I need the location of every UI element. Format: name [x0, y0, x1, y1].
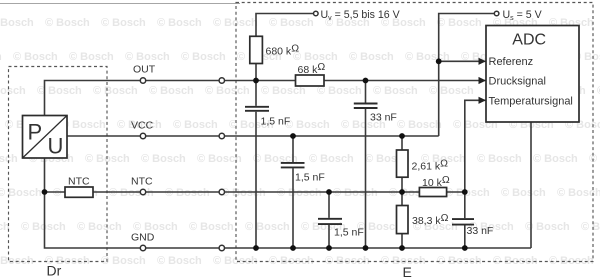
sensor cell P/U [23, 116, 68, 159]
svg-text:GND: GND [131, 232, 155, 244]
resistor 68k [296, 61, 326, 86]
svg-text:© Bosch: © Bosch [181, 51, 226, 63]
svg-text:© Bosch: © Bosch [101, 17, 146, 29]
svg-text:© Bosch: © Bosch [245, 221, 290, 233]
svg-text:© Bosch: © Bosch [293, 51, 338, 63]
svg-text:© Bosch: © Bosch [21, 221, 66, 233]
svg-text:© Bosch: © Bosch [445, 187, 490, 199]
capacitor C4 1.5nF [318, 219, 364, 239]
wire rail capacitor C3 [292, 136, 294, 248]
svg-text:© Bosch: © Bosch [0, 51, 2, 63]
top rule [0, 3, 240, 5]
pin arrow Referenz [479, 58, 487, 65]
svg-text:1,5 nF: 1,5 nF [261, 115, 291, 127]
svg-text:Dr: Dr [47, 263, 62, 279]
wire rail capacitor C5 [464, 192, 466, 248]
svg-text:© Bosch: © Bosch [149, 85, 194, 97]
wire ADC ground [530, 122, 532, 248]
svg-text:© Bosch: © Bosch [141, 153, 186, 165]
wire rail capacitor C2 [365, 81, 367, 249]
svg-text:NTC: NTC [68, 176, 90, 188]
svg-text:© Bosch: © Bosch [205, 85, 250, 97]
wire OUT (y=80.5) [45, 81, 487, 116]
svg-text:© Bosch: © Bosch [69, 51, 114, 63]
capacitor C2 33nF [354, 104, 397, 124]
svg-text:Temperatursignal: Temperatursignal [489, 95, 573, 107]
svg-text:© Bosch: © Bosch [165, 187, 210, 199]
wire VCC (y=136) [67, 135, 439, 137]
svg-text:© Bosch: © Bosch [157, 255, 202, 267]
svg-text:© Bosch: © Bosch [581, 221, 600, 233]
capacitor C3 1.5nF [281, 163, 325, 184]
svg-text:Uv = 5,5 bis 16 V: Uv = 5,5 bis 16 V [321, 9, 401, 22]
svg-text:© Bosch: © Bosch [101, 255, 146, 267]
svg-text:© Bosch: © Bosch [189, 221, 234, 233]
capacitor C5 33nF [452, 219, 493, 237]
sensor box Dr (dashed) [9, 67, 108, 262]
node junction dots [42, 58, 468, 251]
svg-text:© Bosch: © Bosch [277, 187, 322, 199]
svg-text:© Bosch: © Bosch [0, 17, 34, 29]
svg-text:© Bosch: © Bosch [477, 153, 522, 165]
wire rail capacitor C4 [328, 192, 330, 248]
resistor 680k [250, 36, 299, 63]
svg-text:Drucksignal: Drucksignal [489, 75, 546, 87]
wire GND (y=248) [45, 158, 532, 248]
terminal Uv [314, 11, 319, 16]
wire supply Us / 5V rail [439, 14, 495, 137]
svg-text:© Bosch: © Bosch [501, 187, 546, 199]
svg-text:© Bosch: © Bosch [429, 85, 474, 97]
resistor 10k [419, 174, 449, 197]
svg-text:Referenz: Referenz [489, 56, 534, 68]
svg-text:© Bosch: © Bosch [437, 17, 482, 29]
svg-text:33 nF: 33 nF [467, 225, 494, 237]
svg-text:33 nF: 33 nF [370, 112, 397, 124]
svg-text:© Bosch: © Bosch [285, 119, 330, 131]
resistor 38.3k [397, 206, 449, 234]
svg-text:P: P [28, 120, 43, 145]
svg-text:1,5 nF: 1,5 nF [295, 172, 325, 184]
wire rail R2/R5 [401, 136, 403, 248]
svg-text:© Bosch: © Bosch [373, 85, 418, 97]
svg-text:© Bosch: © Bosch [173, 119, 218, 131]
svg-text:© Bosch: © Bosch [0, 85, 26, 97]
svg-text:© Bosch: © Bosch [333, 187, 378, 199]
pin arrow Drucksignal [479, 77, 487, 84]
svg-text:© Bosch: © Bosch [197, 153, 242, 165]
terminal Us [494, 11, 499, 16]
resistor NTC [65, 176, 93, 198]
svg-text:© Bosch: © Bosch [533, 153, 578, 165]
pin arrow Temperatursignal [479, 97, 487, 104]
ECU box E (dashed) [236, 3, 593, 262]
svg-text:© Bosch: © Bosch [93, 85, 138, 97]
resistor 2.61k [397, 150, 449, 177]
svg-text:© Bosch: © Bosch [397, 119, 442, 131]
svg-text:OUT: OUT [133, 64, 156, 76]
svg-text:© Bosch: © Bosch [589, 153, 600, 165]
svg-text:© Bosch: © Bosch [109, 187, 154, 199]
svg-text:© Bosch: © Bosch [221, 187, 266, 199]
svg-text:© Bosch: © Bosch [269, 17, 314, 29]
svg-text:© Bosch: © Bosch [45, 17, 90, 29]
svg-text:© Bosch: © Bosch [77, 221, 122, 233]
svg-text:© Bosch: © Bosch [13, 51, 58, 63]
svg-text:1,5 nF: 1,5 nF [334, 226, 364, 238]
svg-text:© Bosch: © Bosch [0, 187, 42, 199]
svg-text:U: U [48, 134, 64, 159]
wire Referenz [439, 60, 486, 62]
wire NTC (y=192) [45, 191, 465, 193]
wire Temperatursignal [465, 100, 486, 192]
connector terminals [140, 78, 224, 251]
wire supply Uv [256, 14, 314, 81]
svg-text:NTC: NTC [131, 176, 153, 188]
op-amp ADC box [486, 26, 579, 123]
svg-text:Us = 5 V: Us = 5 V [503, 9, 543, 22]
svg-text:© Bosch: © Bosch [157, 17, 202, 29]
wire rail capacitor C1 [255, 81, 257, 249]
svg-text:© Bosch: © Bosch [349, 51, 394, 63]
svg-text:ADC: ADC [512, 32, 546, 49]
svg-text:© Bosch: © Bosch [309, 153, 354, 165]
svg-text:E: E [403, 264, 412, 280]
svg-text:© Bosch: © Bosch [125, 51, 170, 63]
svg-text:VCC: VCC [131, 119, 154, 131]
capacitor C1 1.5nF [245, 107, 290, 128]
